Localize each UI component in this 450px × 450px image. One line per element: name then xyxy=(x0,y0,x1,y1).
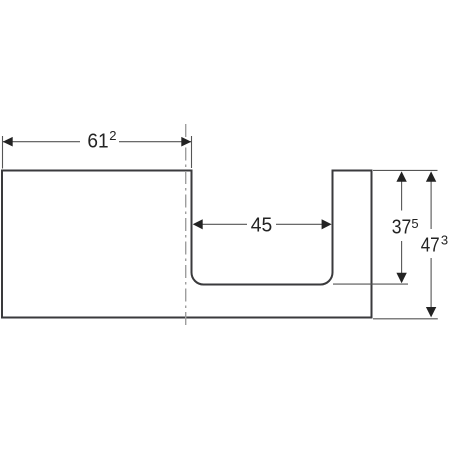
centerline (dash-dot) xyxy=(185,124,187,325)
dimension 47/3: dimension line top segment xyxy=(430,173,432,230)
svg-text:3: 3 xyxy=(441,233,448,248)
countertop outline xyxy=(2,171,372,318)
svg-text:37: 37 xyxy=(392,216,412,239)
dimension 45: dimension line left segment xyxy=(194,223,247,225)
dimension 37/5: bottom arrow xyxy=(396,273,406,283)
dimension 61/2: right arrow xyxy=(181,137,191,147)
dimension 47/3: top arrow xyxy=(426,171,436,181)
svg-text:61: 61 xyxy=(87,129,108,152)
shared top extension line for 37/5 and 47/3 xyxy=(373,169,438,171)
dimension 61/2: dimension line right segment xyxy=(119,141,191,143)
svg-text:2: 2 xyxy=(109,128,116,143)
dimension 45: left arrow xyxy=(193,219,203,229)
dimension 61/2: right extension line xyxy=(191,136,193,168)
dimension 47/3: dimension line bottom segment xyxy=(430,258,432,316)
dimension 37/5: dimension line top segment xyxy=(401,173,403,211)
dimension 45: dimension line right segment xyxy=(276,223,331,225)
svg-text:45: 45 xyxy=(251,213,272,236)
svg-text:47: 47 xyxy=(421,233,440,256)
dimension 47/3: bottom extension line xyxy=(373,318,438,320)
dimension 61/2: left arrow xyxy=(3,137,13,147)
dimension 47/3: bottom arrow xyxy=(426,307,436,317)
dimension 45: right arrow xyxy=(322,219,332,229)
dimension 61/2: left extension line xyxy=(2,136,4,169)
svg-text:5: 5 xyxy=(411,216,418,231)
dimension 37/5: dimension line bottom segment xyxy=(401,241,403,282)
dimension 37/5: bottom extension line xyxy=(333,283,408,285)
dimension 37/5: top arrow xyxy=(396,171,406,181)
dimension 61/2: dimension line left segment xyxy=(3,141,80,143)
